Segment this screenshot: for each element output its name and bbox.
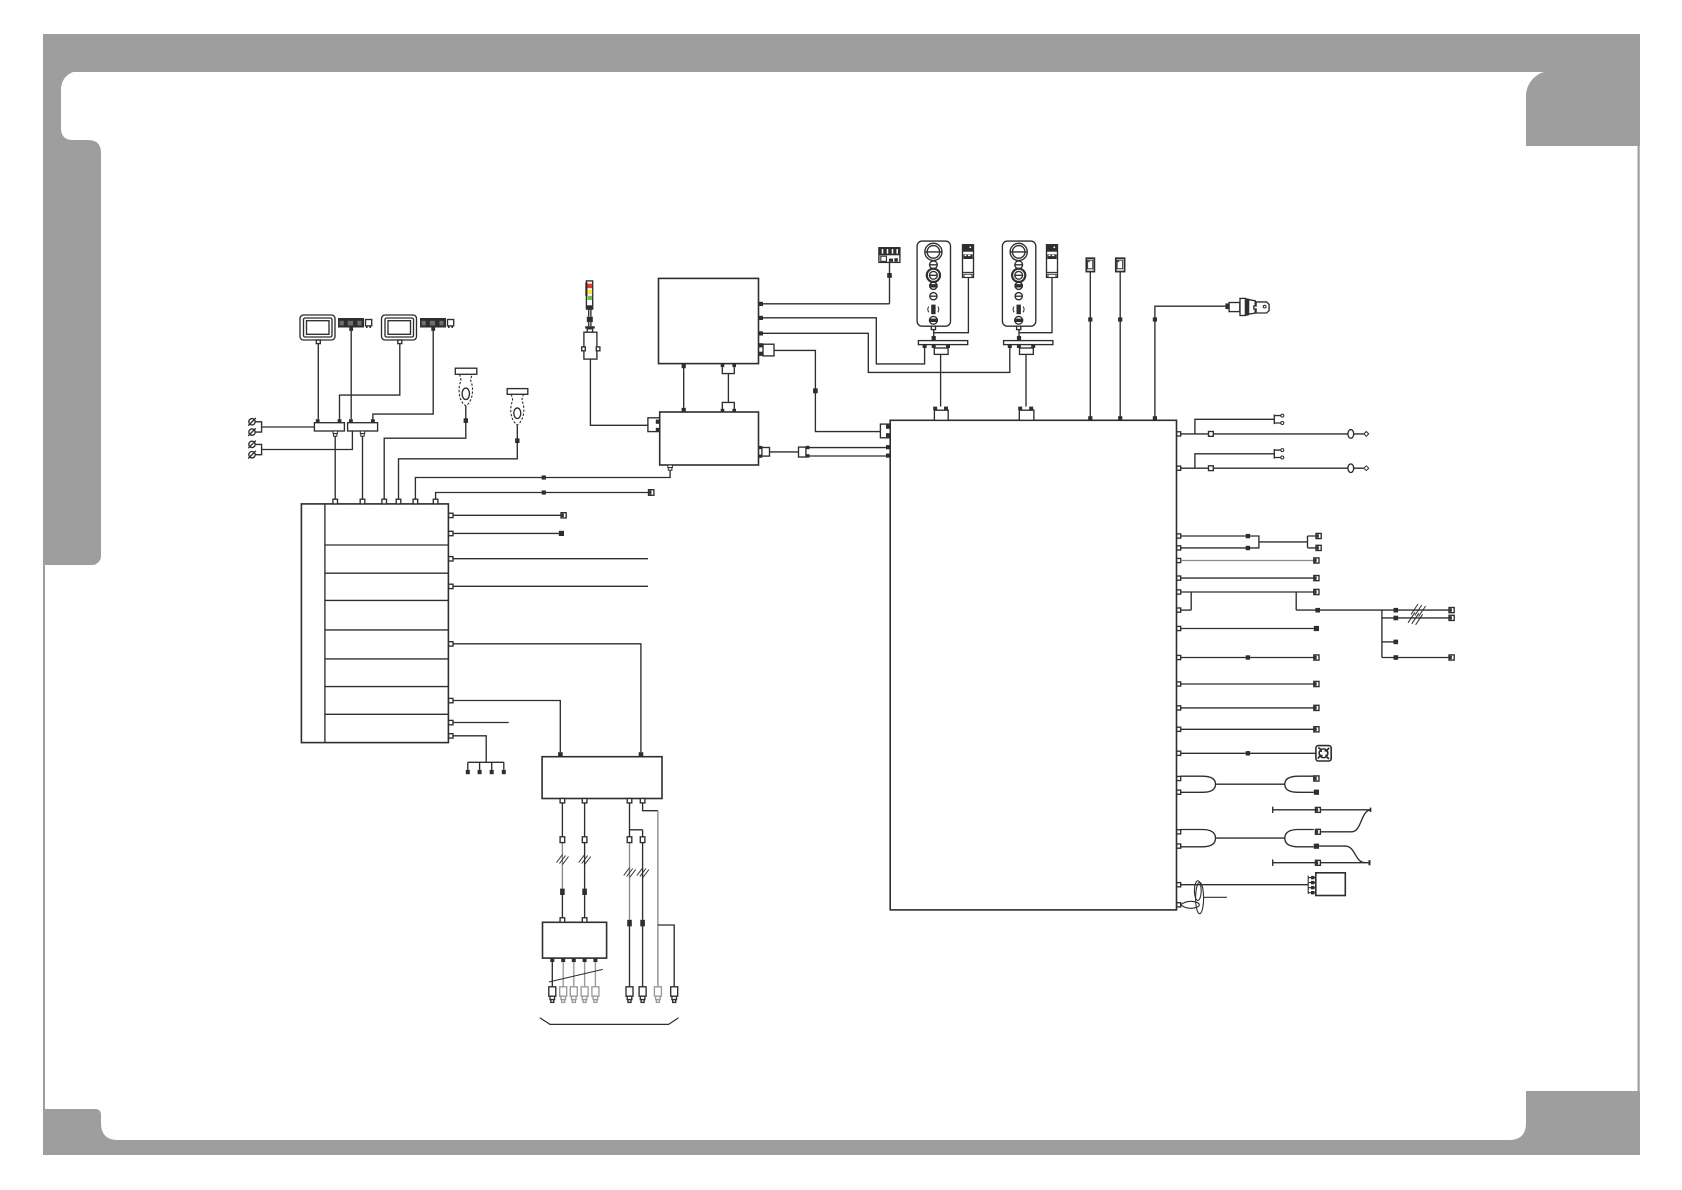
crossing annotation line xyxy=(549,969,603,982)
wire MD to plug 2 xyxy=(562,962,564,987)
end filled R14 xyxy=(1314,790,1319,795)
pump box xyxy=(1316,873,1346,896)
pin CB right 4 xyxy=(449,584,453,588)
impeller blade 1 xyxy=(1194,881,1201,901)
wire R6 branch 4 xyxy=(1382,657,1449,659)
pin CN1 xyxy=(333,499,338,504)
pin MB right R8 xyxy=(1177,655,1181,659)
comb pin 1 xyxy=(466,770,470,774)
end tick S1 xyxy=(1370,808,1372,812)
wire capsule link 1 xyxy=(1216,783,1285,785)
wire FB3 jog xyxy=(630,803,643,837)
wire CB row7 xyxy=(453,722,509,724)
wire CB row3 xyxy=(453,558,648,560)
junction open S1 xyxy=(1315,807,1320,812)
plug M5 xyxy=(592,987,599,1003)
comb pin 4 xyxy=(502,770,506,774)
operation panel OP2 xyxy=(1002,241,1035,330)
impeller axle xyxy=(1203,896,1227,898)
wire P2 to control box CN4 xyxy=(399,425,518,500)
junction on OP2 wire xyxy=(1017,336,1021,340)
wire box B stub to splitter xyxy=(770,451,799,453)
pin MB right R2 xyxy=(1177,546,1181,550)
wire control box CN6 branch xyxy=(436,493,649,500)
bar2 lower pin b xyxy=(1017,345,1021,348)
junction R8 xyxy=(1246,655,1250,659)
pin MB right R3 xyxy=(1177,558,1181,562)
end connector R10 xyxy=(1314,705,1319,710)
page frame top band xyxy=(43,34,1640,72)
wire R8 xyxy=(1181,657,1314,659)
control box row divider 7 xyxy=(325,713,449,715)
pin A2 xyxy=(759,316,763,320)
cable break hash FB1 xyxy=(557,855,569,865)
wire A3 to keypad bar 2 xyxy=(763,333,1010,372)
end filled R6b3 xyxy=(1394,640,1399,645)
inline connector on P2 wire xyxy=(515,438,519,443)
wire ground pair 1 to junction block J1 xyxy=(255,422,314,432)
control box row divider 2 xyxy=(325,572,449,574)
wire CB row5 to filter board xyxy=(453,644,641,752)
relay box B xyxy=(660,412,759,465)
inline connector open FB4 xyxy=(640,837,645,843)
wire FB2 down to motor box xyxy=(584,803,586,918)
pin CB right 3 xyxy=(449,557,453,561)
junction R1 xyxy=(1246,534,1250,538)
pin B right 1 xyxy=(759,446,762,449)
wire R15 to curve up xyxy=(1320,810,1371,832)
wire R6 trunk xyxy=(1296,610,1382,657)
end filled R7 xyxy=(1314,626,1319,631)
pin MB right R1 xyxy=(1177,534,1181,538)
pin FB top 2 xyxy=(639,752,644,757)
inline connector filled FB2 xyxy=(582,889,587,895)
pump connector pins xyxy=(1311,876,1314,895)
display monitor DSP2 xyxy=(382,315,417,344)
pin MB right row B xyxy=(1177,466,1181,470)
pin FB bottom 3 xyxy=(627,799,632,803)
wire CB row6 to filter board xyxy=(453,701,560,753)
operation panel OP1 xyxy=(917,241,950,330)
pin MD bottom 2 xyxy=(561,958,565,962)
end connector R6b2 xyxy=(1449,615,1454,620)
aux connector X2 xyxy=(1116,258,1125,271)
pin MD bottom 1 xyxy=(550,958,554,962)
wire P1 to control box CN3 xyxy=(384,406,466,500)
pin MB right R4 xyxy=(1177,576,1181,580)
wire CAM2 to J2 xyxy=(373,331,433,419)
plug F3 xyxy=(654,987,661,1003)
wire branch row A to 2-prong plug xyxy=(1195,419,1274,434)
pin CN2 xyxy=(360,499,365,504)
control box row divider 6 xyxy=(325,686,449,688)
wire MD to plug 3 xyxy=(573,962,575,987)
pin FB bottom 1 xyxy=(560,799,565,803)
pin MB right R9 xyxy=(1177,682,1181,686)
cable break hash FB3 xyxy=(624,868,636,878)
wire row A to door loop xyxy=(1181,433,1364,435)
page frame bottom band with tabs xyxy=(43,1091,1640,1155)
wire R11 xyxy=(1181,728,1314,730)
wire TL1 to relay box B xyxy=(590,359,648,425)
junction R6b1 xyxy=(1394,608,1399,613)
bar1 lower pin a xyxy=(923,345,927,348)
junction R2 xyxy=(1246,546,1250,550)
connector stub under J1 xyxy=(333,431,337,436)
wire R6 branch 1 xyxy=(1382,609,1449,611)
pin CB right 2 xyxy=(449,531,453,535)
display monitor DSP1 xyxy=(300,315,335,344)
pin A4 xyxy=(759,343,763,347)
wire CB row8 to comb xyxy=(453,736,504,770)
wire X1 to main board xyxy=(1089,272,1091,421)
pin MB top X2 xyxy=(1118,416,1122,420)
junction open row A xyxy=(1209,432,1214,437)
connector stub pair below box A xyxy=(721,364,736,374)
pin MB left 2 xyxy=(886,433,890,437)
pin MB right R7 xyxy=(1177,626,1181,630)
prong tip a xyxy=(1281,414,1284,417)
pin main board left 3 xyxy=(886,445,890,449)
inline connector on CC1 wire xyxy=(887,273,892,278)
page frame right thin rule xyxy=(1638,143,1640,1093)
junction on OP1 wire xyxy=(932,336,936,340)
wire bar1 to main board stub 1 xyxy=(940,354,942,406)
end connector R1 xyxy=(1316,533,1321,538)
wire stub pair to box B stub xyxy=(727,374,729,403)
pin MB right R14 xyxy=(1177,790,1181,794)
end filled R16 xyxy=(1314,844,1319,849)
bar2 lower pin c xyxy=(1031,345,1035,348)
prong tip b xyxy=(1281,422,1284,425)
connector stub right of box A xyxy=(763,344,774,356)
pin MB top X1 xyxy=(1088,416,1092,420)
scanner probe P2 xyxy=(507,389,528,425)
pin CN3 xyxy=(382,499,387,504)
pin A3 xyxy=(759,331,763,335)
pin MB right R6 xyxy=(1177,608,1181,612)
camera bar CAM1 xyxy=(338,318,364,331)
end connector R3 xyxy=(1314,558,1319,563)
wire OP2 to keypad bar 2 xyxy=(1018,330,1020,341)
wire R6 left stub xyxy=(1181,609,1192,611)
scanner probe P1 xyxy=(455,368,477,406)
stub wire S2 xyxy=(1273,860,1370,866)
control box inner partition xyxy=(324,504,326,743)
wire DSP2 to J1 xyxy=(340,344,400,420)
pin MB right row A xyxy=(1177,432,1181,436)
pin CB right 5 xyxy=(449,642,453,646)
inline connector filled FB3 xyxy=(627,920,632,927)
pin CB right 6 xyxy=(449,698,453,702)
control box row divider 4 xyxy=(325,629,449,631)
wire branch to fourth plug xyxy=(658,925,674,987)
pump connector comb xyxy=(1308,876,1316,894)
plug F4 xyxy=(671,987,678,1003)
splitter connector xyxy=(799,447,806,457)
bar1 bottom stub xyxy=(934,348,948,354)
wire bar2 to main board stub 2 xyxy=(1025,354,1027,406)
plug M2 xyxy=(560,987,567,1003)
main board left stub xyxy=(880,424,890,438)
pin MB right R11 xyxy=(1177,727,1181,731)
main board top stub 2 xyxy=(1018,407,1034,421)
wire row B to loop xyxy=(1181,467,1364,469)
junction on X1 wire xyxy=(1088,317,1092,321)
pin J2-1 xyxy=(349,419,353,423)
connector plug of CAM2 xyxy=(448,320,454,329)
wire FB3 lower xyxy=(629,843,631,987)
wire MD to plug 5 xyxy=(594,962,596,987)
wire X2 to main board xyxy=(1119,272,1121,421)
pin B left 2 xyxy=(656,428,660,432)
pin A1 xyxy=(759,302,763,306)
bar2 lower pin a xyxy=(1008,345,1012,348)
end connector R6b1 xyxy=(1449,608,1454,613)
pin CB right 8 xyxy=(449,734,453,738)
junction R6b2 xyxy=(1394,616,1399,621)
junction on KS1 wire xyxy=(1153,317,1157,321)
wire FB4 vertical xyxy=(642,830,644,987)
junction R6 xyxy=(1315,608,1320,613)
wire branch row B to 2-prong plug xyxy=(1195,454,1274,468)
inline connector open FB1 xyxy=(560,837,565,843)
page frame right tab xyxy=(1526,71,1640,146)
control box row divider 3 xyxy=(325,599,449,601)
wire A stub to main board left stub xyxy=(774,350,880,431)
pin J2-2 xyxy=(371,419,375,423)
connector stub under J2 xyxy=(360,431,364,436)
motor drive box xyxy=(543,922,607,958)
junction block J2 xyxy=(348,423,378,431)
controller box A xyxy=(659,278,759,363)
main board (large box) xyxy=(890,420,1176,910)
junction block J1 xyxy=(314,423,344,431)
wire KS1 to main board xyxy=(1155,306,1226,420)
fan FM1 xyxy=(1316,746,1331,761)
junction square on CN6 wire xyxy=(542,490,546,494)
inline connector on that wire xyxy=(813,388,818,393)
bar1 lower pin c xyxy=(946,345,950,348)
plug M4 xyxy=(581,987,588,1003)
wire pair splitter to main board xyxy=(810,448,887,456)
wire DSP1 to J1 xyxy=(317,344,319,420)
pin MB top KS1 xyxy=(1153,416,1157,420)
wire box B bottom to control box CN5 xyxy=(415,470,670,499)
junction R12 xyxy=(1246,751,1250,755)
end tick S2 xyxy=(1369,860,1371,865)
pin MD top 2 xyxy=(582,918,587,923)
junction on X2 wire xyxy=(1118,317,1122,321)
pin MB right R16 xyxy=(1177,844,1181,848)
aux connector X1 xyxy=(1086,258,1094,271)
wire CB row2 xyxy=(453,532,559,534)
wire CAM1 to J2 xyxy=(350,331,352,419)
pin MD bottom 5 xyxy=(593,958,597,962)
pin CB right 7 xyxy=(449,720,453,724)
2-prong plug PB xyxy=(1274,449,1281,459)
wire MD to plug 1 xyxy=(551,962,553,987)
cable capsule left 2 xyxy=(1181,830,1216,847)
wire HS2 to keypad bar 2 xyxy=(1019,277,1052,332)
connector stub right of box B xyxy=(762,448,770,457)
end connector of CN6 wire xyxy=(649,490,654,496)
comb pin 3 xyxy=(490,770,494,774)
wire R3 gray xyxy=(1181,560,1314,562)
wire FB4 branch to third plug xyxy=(643,803,658,987)
inline connector open FB2 xyxy=(582,837,587,843)
pin A5 xyxy=(759,352,763,356)
pin MB right R13 xyxy=(1177,776,1181,780)
page frame left thin rule xyxy=(43,560,45,1112)
wire R12 to fan xyxy=(1181,752,1316,754)
pin J1-2 xyxy=(338,419,342,423)
connector stub on box B top xyxy=(721,402,736,412)
inline connector open FB3 xyxy=(627,837,632,843)
pin FB top 1 xyxy=(558,752,563,757)
wire R10 xyxy=(1181,707,1314,709)
plug M3 xyxy=(570,987,577,1003)
wire R5 branch down left xyxy=(1190,592,1192,610)
wire capsule link 2 xyxy=(1216,837,1285,839)
wire CB row1 xyxy=(453,514,561,516)
keypad bar 2 xyxy=(1004,341,1053,345)
wire MD to plug 4 xyxy=(584,962,586,987)
end connector R2 xyxy=(1316,545,1321,550)
pin MD bottom 4 xyxy=(583,958,587,962)
hand switch HS2 xyxy=(1047,245,1058,278)
pin MD top 1 xyxy=(560,918,565,923)
wire R17 to pump connector xyxy=(1181,884,1309,886)
connector stub left of box B xyxy=(648,418,660,432)
pin B left 1 xyxy=(656,420,660,424)
pin CN6 xyxy=(433,499,438,504)
end connector row1 xyxy=(561,513,566,518)
wire CB row4 xyxy=(453,585,648,587)
key switch connector KS1 xyxy=(1225,298,1269,315)
keypad bar 1 xyxy=(918,341,967,345)
wire R9 xyxy=(1181,683,1314,685)
comm connector CC1 xyxy=(879,248,900,263)
diamond end row B xyxy=(1364,466,1369,471)
pin MB right R12 xyxy=(1177,751,1181,755)
wire R6 branch 2 xyxy=(1382,617,1449,619)
ground lug G4 xyxy=(248,451,256,459)
wire R16 to curve down xyxy=(1319,846,1365,863)
cable capsule right 1 xyxy=(1285,776,1314,792)
filter board box xyxy=(542,757,662,799)
end connector R6b4 xyxy=(1449,655,1454,660)
wire OP1 to keypad bar 1 xyxy=(933,330,935,341)
hash R6b1 xyxy=(1411,604,1426,617)
pin FB bottom 2 xyxy=(582,799,587,803)
wire ground pair 2 to junction block J2 xyxy=(255,431,352,455)
wire R5 branch down right xyxy=(1295,592,1297,610)
end connector R9 xyxy=(1314,681,1319,686)
junction square on that wire xyxy=(542,475,546,479)
page frame left tab xyxy=(43,71,101,565)
wire R4 xyxy=(1181,577,1314,579)
loop row A xyxy=(1348,430,1354,439)
pin B right 2 xyxy=(759,455,762,458)
pin MB right R5 xyxy=(1177,590,1181,594)
drain bulb xyxy=(1181,901,1200,908)
cable capsule left 1 xyxy=(1181,776,1216,792)
prong tip d xyxy=(1281,456,1284,459)
impeller blade 2 xyxy=(1196,882,1204,913)
control box row divider 1 xyxy=(325,544,449,546)
connector stub under box B xyxy=(668,465,673,470)
inline connector filled FB4 xyxy=(640,920,645,927)
junction open S2 xyxy=(1315,860,1320,865)
pin B top 1 xyxy=(682,408,686,412)
pin CN4 xyxy=(396,499,401,504)
wire R7 xyxy=(1181,628,1314,630)
pin MB right R15 xyxy=(1177,830,1181,834)
plug F1 xyxy=(626,987,633,1003)
stub wire S1 xyxy=(1273,807,1371,813)
splitter pin 1 xyxy=(806,446,810,449)
connector plug of CAM1 xyxy=(366,320,372,329)
inline connector on P1 wire xyxy=(464,418,468,423)
junction R6b4 xyxy=(1394,655,1399,660)
wire J2 stub to control box CN2 xyxy=(362,436,364,499)
loop row B xyxy=(1348,464,1354,473)
camera bar CAM2 xyxy=(420,318,446,331)
pin MB right R17 xyxy=(1177,883,1181,887)
signal tower lamp TL1 xyxy=(586,281,592,309)
end connector R13 xyxy=(1314,776,1319,781)
end connector R8 xyxy=(1314,655,1319,660)
wire J1 stub to control box CN1 xyxy=(334,436,336,499)
cable capsule right 2 xyxy=(1285,830,1314,847)
diamond end row A xyxy=(1364,432,1369,437)
end connector R11 xyxy=(1314,727,1319,732)
2-prong plug PA xyxy=(1274,415,1281,425)
bar1 lower pin b xyxy=(932,345,936,348)
inline connector filled FB1 xyxy=(560,889,565,895)
junction open R15 xyxy=(1315,829,1320,834)
control box (left big box) xyxy=(301,504,448,743)
pin main board left 4 xyxy=(886,454,890,458)
pin MB right R18 xyxy=(1177,903,1181,907)
tower lamp stem and plug xyxy=(582,309,600,359)
wire CC1 to pin A1 xyxy=(889,262,891,303)
junction open row B xyxy=(1209,466,1214,471)
end connector R5 xyxy=(1314,589,1319,594)
wire FB1 down to motor box xyxy=(561,803,563,918)
bar2 bottom stub xyxy=(1020,348,1034,354)
pin A bottom 1 xyxy=(682,364,686,368)
cable break hash FB4 xyxy=(637,868,649,878)
splitter pin 2 xyxy=(806,454,810,457)
wire R1+R2 merge xyxy=(1181,536,1316,548)
wire A1 to comm connector xyxy=(763,303,890,305)
main board top stub 1 xyxy=(933,407,948,421)
end connector row2 xyxy=(559,531,564,536)
harness brace xyxy=(540,1018,679,1025)
plug M1 xyxy=(549,987,556,1003)
pin MD bottom 3 xyxy=(572,958,576,962)
wire R5 xyxy=(1181,591,1314,593)
wire A2 to keypad bar 1 xyxy=(763,318,925,364)
hash R6b2 xyxy=(1408,612,1423,625)
pin MB right R10 xyxy=(1177,706,1181,710)
ground lug G2 xyxy=(248,428,256,436)
wire R6 branch 3 xyxy=(1382,641,1394,643)
end connector R4 xyxy=(1314,576,1319,581)
comb pin 2 xyxy=(478,770,482,774)
